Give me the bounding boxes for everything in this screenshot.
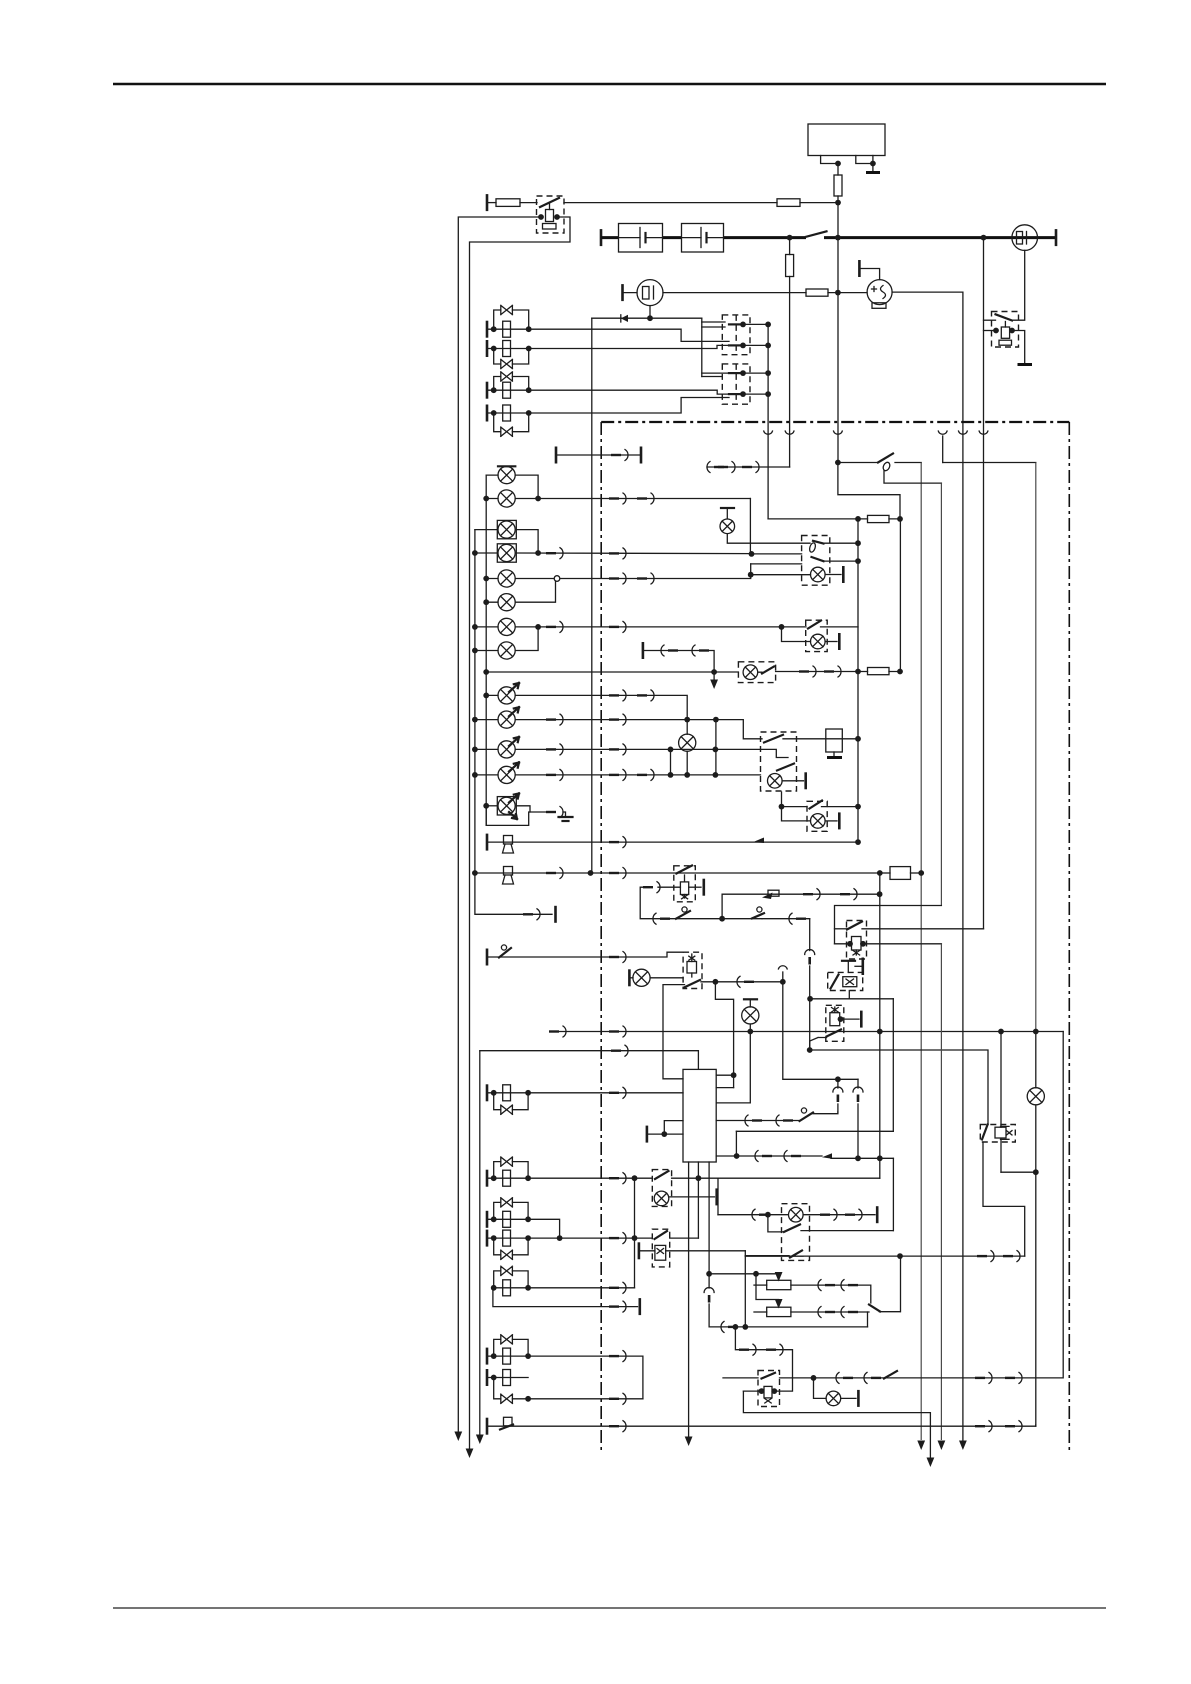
fuse row F6: [768, 518, 858, 520]
hi-beam unit S9 dashed box: [761, 732, 797, 791]
ground K2: [1018, 363, 1033, 366]
terminal row 455: [555, 447, 558, 464]
node K2 right: [1009, 328, 1015, 334]
fuse F4 on vertical: [789, 238, 791, 255]
node K1 right: [554, 214, 560, 220]
washer group 2 terminal: [486, 340, 489, 357]
fuse F2: [487, 202, 496, 204]
feeder 879 vertical: [879, 873, 881, 1178]
ind lamp E10: [498, 711, 515, 728]
lamp E6: [498, 594, 515, 611]
connector X2 dashed box: [722, 364, 750, 404]
diode D1 row: [592, 317, 702, 319]
valve V4: [501, 427, 513, 436]
node K2 left: [993, 328, 999, 334]
terminal battery left: [600, 229, 603, 246]
ECU right pin bracket: [716, 1074, 733, 1076]
relay rect above S9: [826, 729, 843, 752]
dimmer unit S8 dashed box: [652, 1170, 671, 1207]
relay K6 dashed box: [828, 972, 863, 990]
sender bracket terminal: [858, 260, 861, 277]
switch S2 second pole: [884, 471, 941, 484]
row X left segment: [618, 1051, 698, 1070]
valve V1: [501, 305, 513, 314]
row H switch: [486, 1418, 489, 1435]
valve V2: [501, 359, 513, 368]
hazard lamp E14 boxed: [497, 797, 516, 815]
battery main line (thick): [601, 236, 619, 239]
relay K8 dashed box: [980, 1125, 1015, 1143]
lamp E11 between rows: [686, 720, 688, 735]
wire sender to right drop: [892, 292, 963, 1440]
vertical link rows B-E: [634, 1178, 636, 1288]
S3 input rows: [752, 553, 802, 555]
row D: [486, 1230, 489, 1247]
feeder verticals: [857, 519, 859, 842]
border pass hooks: [764, 431, 773, 434]
heater resistor R2: [767, 1307, 791, 1316]
ground under box: [866, 171, 880, 174]
wire to contact boxes: [701, 318, 703, 376]
sender M1: [867, 280, 892, 305]
washer group 3 terminal: [486, 382, 489, 399]
valve loop G3: [494, 377, 529, 391]
K5 output drop: [940, 944, 942, 1440]
lamp E7: [498, 618, 515, 635]
ECU control box: [683, 1069, 716, 1162]
right feed row: [943, 462, 1036, 464]
row 1172: [1001, 1171, 1036, 1173]
buzzer row 2: [475, 872, 880, 874]
ind lamp E13: [498, 766, 515, 783]
left bus A: [485, 475, 487, 825]
relay coil K1: [546, 210, 554, 222]
blower switch blade: [869, 1305, 880, 1312]
fuse F8: [880, 872, 890, 874]
row V: [810, 998, 893, 1000]
wire fuse row to battery node: [564, 202, 777, 204]
battery feed vertical: [837, 203, 839, 463]
lamp E17: [1027, 1088, 1044, 1105]
contact X2b: [729, 393, 742, 395]
long row W: [556, 1031, 1063, 1033]
switch S2 blade: [878, 454, 893, 463]
wire K1 right drop: [470, 217, 571, 1448]
wire: box right stub: [856, 156, 873, 164]
top rule: [113, 83, 1106, 86]
unit S10 dashed box: [807, 801, 827, 831]
courtesy lamp unit S11 dashed box: [782, 1204, 810, 1261]
lamp E15: [628, 969, 631, 986]
switch blade in K1: [540, 198, 559, 207]
row G: [486, 1369, 489, 1386]
relay K1 dashed box: [537, 196, 565, 233]
node gauge branch: [981, 235, 987, 241]
battery G1 box: [619, 224, 663, 253]
stop switch S7: [801, 1108, 806, 1113]
washer relay K7 dashed box: [826, 1005, 844, 1041]
fuse F3: [777, 199, 800, 207]
row E bus drop: [493, 1288, 638, 1307]
headlamp switch S3 dashed box: [802, 536, 830, 586]
row X right segment: [810, 1050, 988, 1125]
long drop 921: [920, 463, 922, 1441]
terminal below K5: [842, 960, 855, 962]
terminal right of gauge: [1055, 229, 1058, 246]
flasher switch blade: [682, 907, 687, 912]
brake segment terminal: [642, 642, 645, 659]
bottom rule: [113, 1607, 1106, 1609]
row 1256: [745, 1255, 1024, 1257]
arrow on row: [753, 838, 764, 844]
flasher relay K3 dashed box: [674, 866, 696, 902]
S11 blade 2: [745, 1255, 789, 1257]
relay K2 feed: [983, 238, 985, 929]
ind lamp E9: [498, 687, 515, 704]
K2 coil: [1001, 327, 1009, 338]
node: stub junction: [835, 161, 841, 167]
lamp E5: [498, 570, 515, 587]
left bus B: [474, 530, 476, 873]
unit border dash-dot left: [600, 422, 602, 1452]
control unit box top right: [808, 124, 885, 156]
terminal 30 left: [486, 194, 489, 211]
row C: [486, 1211, 489, 1228]
row E: [493, 1287, 635, 1289]
horn switch row terminal: [486, 834, 489, 851]
lamp E8: [498, 642, 515, 659]
K8 blade out: [983, 1142, 1025, 1256]
long drop 941 upper: [940, 483, 942, 905]
contact X1a: [729, 323, 742, 325]
valve loop G2: [494, 349, 529, 365]
fuse F1 on vertical: [837, 164, 839, 176]
lamp in S3: [811, 567, 826, 582]
node K1 left: [538, 214, 544, 220]
K10 feed bracket: [735, 1327, 792, 1391]
lamp E3 boxed: [497, 520, 516, 538]
washer group 4 terminal: [486, 405, 489, 422]
lamp H1: [721, 507, 734, 509]
ind lamp E12: [498, 741, 515, 758]
wire G4 row: [529, 398, 729, 414]
K8 coil bottom out: [1000, 1139, 1002, 1172]
ECU bottom drops: [688, 1162, 690, 1436]
headlight row B: [486, 1170, 489, 1187]
switch-lamp unit S4 dashed box: [806, 620, 828, 651]
ignition switch row: [835, 460, 841, 466]
hook pairs: [837, 1079, 839, 1088]
K4 blade bottom: [684, 980, 700, 988]
valve loop G4: [494, 413, 529, 432]
washer group 1 terminal: [486, 321, 489, 338]
fog relay K9 dashed box: [652, 1229, 669, 1267]
feed step to fuse row: [838, 463, 900, 519]
ECU pin row right: [716, 1155, 822, 1157]
lamp E4 boxed: [497, 544, 516, 562]
battery G2 box: [682, 224, 724, 253]
drop from flasher switch: [809, 919, 811, 951]
wire gauge drop to K2: [1011, 250, 1025, 320]
K10 bottom row: [743, 1391, 930, 1457]
S11 blade 1: [768, 1215, 783, 1232]
row B corner from feeder: [718, 1177, 880, 1179]
arrow down: [713, 672, 715, 680]
lamp E16: [744, 998, 757, 1000]
row 1327: [709, 1304, 867, 1327]
unit border dash-dot right: [1068, 422, 1070, 1450]
horn branch node: [649, 306, 651, 319]
wire to left bus: [458, 217, 541, 1431]
flasher output up: [722, 894, 880, 919]
contact X1b: [729, 344, 742, 346]
node battery-fuse: [787, 235, 793, 241]
wire K2 to ground: [1012, 331, 1025, 365]
K5 coil: [852, 937, 862, 951]
connector stub up: [782, 972, 784, 982]
row F: [486, 1348, 489, 1365]
main drop wire: [591, 318, 593, 873]
long drop 1036: [1035, 463, 1037, 1032]
relay K2 dashed box: [992, 312, 1019, 348]
K8 coil feed: [1000, 1032, 1002, 1128]
K5 dashed box: [847, 921, 867, 960]
fuse F5: [806, 289, 828, 296]
main bottom row: [723, 1377, 1063, 1379]
wire G3 row: [529, 390, 729, 394]
wire G2 row: [529, 345, 729, 348]
fuse G1: [503, 321, 511, 337]
K8 coil caps: [1001, 1126, 1010, 1139]
drop 782.8: [783, 982, 858, 1080]
headlight row A: [486, 1084, 489, 1101]
bottom arrows of feeders: [454, 1432, 462, 1442]
lamp E2: [498, 490, 515, 507]
row 467 connector: [707, 466, 790, 468]
valve loop G1: [494, 310, 529, 329]
contact X2a: [729, 372, 742, 374]
K4 left drop to ECU: [663, 985, 685, 1079]
wiper switch S6: [486, 949, 489, 966]
connector X1 dashed box: [722, 315, 750, 355]
K5 blade line: [835, 928, 848, 930]
K7 blade: [827, 1030, 842, 1037]
wire: box left stub: [821, 156, 838, 164]
K2 blade: [996, 314, 1013, 320]
heater resistor R1: [767, 1280, 791, 1289]
fuse F7: [868, 668, 890, 675]
lamp E18: [814, 1378, 827, 1399]
node battery-feed: [835, 235, 841, 241]
heater unit K10 dashed box: [758, 1371, 780, 1407]
connector bus drop: [767, 324, 769, 519]
buzzer H2: [503, 836, 514, 854]
big loop left vertical row: [480, 1050, 618, 1052]
unit border dash-dot top: [601, 421, 1069, 423]
switch S1 on battery line: [806, 231, 827, 237]
valve V3: [501, 372, 513, 381]
park lamp row: [486, 671, 738, 673]
switch-lamp unit S5 dashed box: [738, 662, 775, 683]
wire G1 row: [529, 329, 729, 341]
interior relay K5 feed: [835, 906, 942, 944]
gauge P1: [1012, 225, 1038, 251]
wiper relay K4 dashed box: [683, 952, 702, 988]
pilot lamp E1 (with shade): [498, 465, 515, 467]
horn B1: [621, 284, 624, 301]
